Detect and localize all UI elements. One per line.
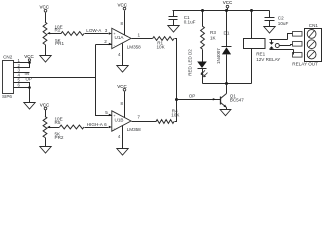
- svg-text:U1A: U1A: [115, 35, 125, 40]
- svg-text:1N4007: 1N4007: [216, 48, 221, 64]
- svg-text:CN1: CN1: [309, 23, 319, 28]
- svg-text:CN2: CN2: [3, 54, 13, 59]
- svg-text:7: 7: [137, 114, 140, 119]
- svg-text:10uF: 10uF: [278, 21, 289, 26]
- svg-text:RED LED D2: RED LED D2: [187, 49, 192, 76]
- svg-text:1: 1: [138, 32, 141, 37]
- svg-text:LM358: LM358: [127, 44, 141, 49]
- svg-text:1K: 1K: [210, 35, 217, 40]
- svg-text:VCC: VCC: [223, 0, 233, 5]
- svg-text:6: 6: [104, 122, 107, 127]
- svg-text:12V RELAY: 12V RELAY: [256, 57, 280, 62]
- svg-text:U1B: U1B: [115, 117, 124, 122]
- svg-text:5: 5: [105, 110, 108, 115]
- svg-text:OP: OP: [189, 93, 196, 98]
- svg-text:R5: R5: [55, 120, 61, 125]
- svg-text:RELAY OUT: RELAY OUT: [292, 62, 318, 67]
- svg-text:PR1: PR1: [55, 41, 64, 46]
- svg-text:0.1uF: 0.1uF: [184, 19, 196, 24]
- svg-text:VCC: VCC: [24, 54, 34, 59]
- svg-text:10K: 10K: [171, 113, 180, 118]
- svg-text:VCC: VCC: [40, 102, 50, 107]
- svg-text:SIP6: SIP6: [2, 94, 12, 99]
- svg-text:VCC: VCC: [117, 84, 127, 89]
- svg-text:VCC: VCC: [40, 5, 50, 10]
- svg-text:VCC: VCC: [118, 3, 128, 8]
- svg-text:LOW-A: LOW-A: [86, 28, 102, 33]
- svg-text:BC547: BC547: [230, 97, 244, 102]
- svg-text:HIGH-A: HIGH-A: [87, 122, 104, 127]
- svg-text:3: 3: [105, 28, 108, 33]
- svg-text:2: 2: [104, 39, 107, 44]
- svg-text:PR2: PR2: [55, 135, 64, 140]
- svg-text:LM358: LM358: [127, 127, 141, 132]
- svg-text:RE1: RE1: [256, 52, 265, 57]
- svg-text:R2: R2: [55, 28, 61, 33]
- svg-text:IN: IN: [25, 71, 29, 76]
- svg-text:C2: C2: [278, 15, 284, 20]
- svg-text:10K: 10K: [157, 44, 166, 49]
